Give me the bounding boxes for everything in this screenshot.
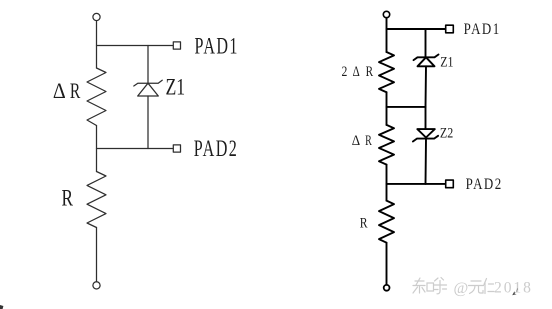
watermark zhihu logo text [413,278,447,294]
terminal bottom (left circuit) [93,282,100,289]
svg-text:2: 2 [342,63,348,80]
resistor dR (right) [379,125,394,165]
wire between dR and R (right) [386,165,388,201]
wire zener Z1 bottom lead [147,96,149,149]
svg-text:Δ: Δ [353,63,360,80]
cursor arrow [512,288,517,295]
wire zener Z1 top lead [147,46,149,84]
svg-text:Z1: Z1 [440,53,453,70]
terminal bottom (right circuit) [384,285,390,291]
pad square PAD1 [173,42,180,49]
glyph ren [484,279,494,294]
wire top vertical [96,21,98,68]
label 2dR (right) [342,63,374,80]
svg-text:PAD2: PAD2 [466,176,503,194]
resistor R (right) [379,201,394,243]
svg-text:R: R [360,214,368,231]
resistor dR (left) [87,68,106,126]
wire middle rail [387,106,426,108]
svg-text:R: R [366,63,374,80]
wire zener Z1 bottom lead (right) [425,66,428,107]
zener Z1 cathode bar (right) [414,55,439,61]
svg-text:R: R [365,132,372,148]
wire zener Z1 top lead (right) [425,29,427,57]
svg-text:Δ: Δ [352,132,360,149]
svg-text:Δ: Δ [53,78,66,103]
svg-text:PAD2: PAD2 [194,137,238,162]
zener Z2 triangle [417,129,435,137]
svg-text:PAD1: PAD1 [195,34,239,59]
svg-text:Z1: Z1 [166,76,186,101]
wire PAD1 rail (right) [387,28,446,30]
zener Z1 cathode bar [134,80,162,86]
svg-text:PAD1: PAD1 [464,21,501,39]
zener Z1 triangle (right) [418,57,435,66]
pad square PAD2 [173,145,180,152]
label dR (right) [352,132,372,149]
pad square PAD1 (right) [446,25,454,33]
wire top vertical [386,18,388,52]
svg-text:R: R [62,186,74,211]
pad square PAD2 (right) [446,180,454,188]
glyph wu [469,281,484,294]
resistor R (left) [87,172,106,228]
svg-text:Z2: Z2 [440,124,454,141]
corner mark bottom-left [0,305,3,309]
svg-text:R: R [70,80,81,104]
wire PAD2 rail [97,148,174,150]
resistor 2dR (right) [379,52,394,92]
glyph hu [434,278,447,294]
wire bottom vertical [96,228,98,282]
wire zener Z2 top lead [425,107,427,129]
terminal top (left circuit) [93,13,100,20]
wire zener Z2 bottom lead [425,139,428,184]
zener Z1 triangle [138,83,159,96]
wire bottom vertical (right) [386,243,388,285]
wire between 2dR and dR [386,92,388,125]
label dR (left) [53,78,81,104]
terminal top (right circuit) [383,11,389,17]
wire PAD2 rail (right) [387,183,446,185]
wire middle vertical [96,126,98,172]
svg-text:@: @ [454,280,469,297]
wire PAD1 rail [97,45,174,47]
zener Z2 cathode bar [413,136,438,142]
glyph zhi [413,278,434,293]
